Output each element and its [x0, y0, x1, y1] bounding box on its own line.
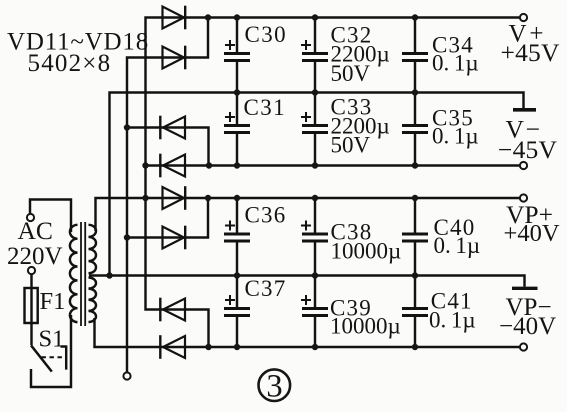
wire switch bottom contact to primary bottom: [31, 315, 71, 387]
ground bar terminal of 45V section: [513, 108, 536, 112]
wire AC terminal 1 to transformer primary top: [30, 200, 71, 233]
transformer primary winding: [70, 225, 78, 322]
capacitor C38: [301, 221, 328, 242]
wire C37 column: [236, 276, 238, 348]
svg-text:C31: C31: [244, 95, 287, 120]
switch S1 actuator: [61, 345, 67, 369]
svg-text:+40V: +40V: [504, 220, 560, 247]
svg-text:10000µ: 10000µ: [331, 239, 402, 264]
wire V- rail: [146, 164, 520, 166]
transformer secondary upper winding: [89, 225, 97, 273]
svg-text:0. 1µ: 0. 1µ: [432, 51, 479, 76]
capacitor C40: [402, 234, 428, 241]
svg-text:F1: F1: [40, 288, 66, 315]
switch S1 blade: [31, 345, 52, 371]
svg-text:50V: 50V: [331, 61, 371, 86]
wire C38 column: [314, 198, 316, 276]
wire VP 0V mid rail from center tap: [89, 276, 525, 287]
node dots VP+ rail: [142, 195, 148, 201]
node dots VP 0V mid rail: [106, 272, 112, 278]
wire VP+ rail with secondary top lead: [96, 198, 521, 231]
wire C39 column: [314, 276, 316, 348]
svg-text:0. 1µ: 0. 1µ: [429, 308, 476, 333]
terminal V- output: [520, 162, 527, 169]
diode VD15: [163, 186, 186, 210]
wire C40 column: [414, 198, 416, 276]
diode VD17: [160, 298, 185, 322]
svg-text:−45V: −45V: [498, 135, 557, 164]
node dot 45V row3 tap: [124, 124, 130, 130]
wire C41 column: [414, 276, 416, 348]
capacitor C34: [402, 54, 428, 61]
svg-text:220V: 220V: [7, 243, 63, 270]
fuse F1: [25, 288, 38, 323]
terminal VP- output: [520, 343, 527, 350]
capacitor C37: [224, 295, 250, 316]
ground bar terminal of 40V section: [512, 287, 538, 290]
wire row2 cathode riser, row2 anode, AC input line 2: [127, 18, 208, 373]
figure number circled 3: [259, 369, 291, 405]
svg-text:C36: C36: [245, 203, 287, 228]
wire VP- rail with secondary bottom lead: [95, 318, 521, 347]
wire C31 column: [236, 93, 238, 166]
diode VD16: [163, 226, 186, 250]
wire VP row2 with riser to VP+ rail: [127, 198, 208, 238]
svg-text:10000µ: 10000µ: [330, 314, 401, 339]
wire AC terminal 2 through fuse to switch: [30, 274, 32, 345]
capacitor C31: [224, 112, 250, 133]
svg-text:3: 3: [266, 369, 282, 405]
svg-text:50V: 50V: [331, 133, 371, 158]
capacitor C41: [402, 309, 428, 316]
svg-text:5402×8: 5402×8: [28, 50, 112, 77]
wire C34 column: [414, 18, 416, 93]
transformer secondary lower winding: [89, 278, 97, 322]
svg-text:C37: C37: [245, 276, 287, 301]
wire V+ rail with AC input line 1 and VP row3 wire: [146, 18, 520, 348]
node dots VP- rail: [205, 344, 211, 350]
switch S1 linkage dashed line: [42, 356, 65, 358]
capacitor C35: [402, 126, 428, 133]
terminal transformer tap lead: [123, 372, 130, 379]
capacitor C36: [224, 221, 250, 242]
diode VD12: [163, 46, 186, 70]
wire C36 column: [236, 198, 238, 276]
diode VD14: [160, 154, 185, 178]
svg-text:0. 1µ: 0. 1µ: [432, 124, 479, 149]
wire 45V row3 with riser to V- rail: [127, 128, 209, 166]
wire C30 column: [236, 18, 238, 93]
capacitor C33: [301, 112, 328, 133]
terminal AC input 1: [27, 214, 34, 221]
capacitor C30: [224, 40, 250, 61]
node dot VP row2 tap: [124, 234, 130, 240]
diode VD13: [160, 116, 185, 140]
svg-text:0. 1µ: 0. 1µ: [434, 233, 481, 258]
svg-text:AC: AC: [18, 216, 53, 245]
svg-text:C30: C30: [245, 22, 288, 47]
node dots 0V mid rail 45V: [234, 89, 240, 95]
terminal VP+ output: [520, 194, 527, 201]
diode VD18: [160, 335, 185, 359]
node dots V- rail: [142, 162, 148, 168]
svg-text:S1: S1: [39, 326, 65, 353]
svg-text:−40V: −40V: [499, 313, 556, 340]
wire C33 column: [314, 93, 316, 166]
terminal V+ output: [520, 14, 527, 21]
capacitor C39: [301, 295, 328, 316]
wire 0V mid rail of 45V section with CT riser: [110, 93, 524, 276]
wire C35 column: [414, 93, 416, 166]
svg-text:+45V: +45V: [501, 38, 560, 67]
transformer core: [81, 222, 85, 326]
wire C32 column: [314, 18, 316, 93]
capacitor C32: [301, 40, 328, 61]
diode VD11: [163, 6, 186, 30]
terminal AC input 2: [28, 267, 35, 274]
node dots V+ rail: [205, 14, 211, 20]
